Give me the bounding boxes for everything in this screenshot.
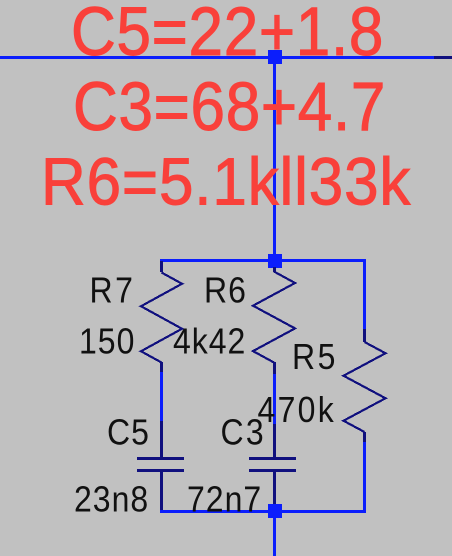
svg-text:R6=5.1kll33k: R6=5.1kll33k [41, 144, 411, 219]
svg-text:C3=68+4.7: C3=68+4.7 [73, 68, 386, 145]
svg-text:R7: R7 [90, 271, 136, 311]
svg-text:C5: C5 [107, 413, 150, 453]
svg-text:4k42: 4k42 [173, 322, 246, 362]
svg-text:C5=22+1.8: C5=22+1.8 [71, 0, 384, 70]
svg-text:R5: R5 [292, 337, 338, 377]
svg-text:C3: C3 [221, 413, 267, 453]
svg-text:470k: 470k [258, 390, 337, 430]
svg-text:23n8: 23n8 [74, 480, 149, 520]
svg-text:R6: R6 [204, 271, 247, 311]
svg-text:150: 150 [79, 322, 135, 362]
svg-text:72n7: 72n7 [187, 480, 262, 520]
